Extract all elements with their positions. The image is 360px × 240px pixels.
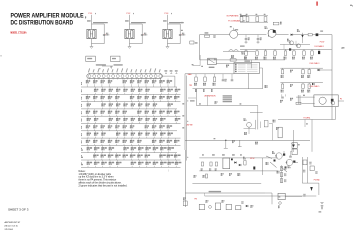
svg-text:P4-3 CHNL 3: P4-3 CHNL 3	[310, 63, 320, 65]
svg-text:P1 CONN AUX: P1 CONN AUX	[228, 20, 241, 23]
svg-text:2 Ignore indicates that the p: 2 Ignore indicates that the part is not …	[79, 185, 128, 188]
svg-text:ASPWRDIST.S7: ASPWRDIST.S7	[5, 221, 22, 224]
svg-text:P6 GND: P6 GND	[314, 179, 321, 181]
svg-text:TP5: TP5	[194, 199, 197, 201]
svg-text:+: +	[143, 33, 144, 35]
svg-text:+: +	[105, 33, 106, 35]
svg-text:P5: P5	[340, 99, 342, 101]
svg-text:DC DISTRIBUTION BOARD: DC DISTRIBUTION BOARD	[11, 20, 74, 27]
svg-text:5V PWR REG: 5V PWR REG	[227, 16, 239, 18]
svg-text:SHEET 3 OF 3: SHEET 3 OF 3	[8, 208, 29, 212]
svg-text:TP3: TP3	[189, 85, 192, 87]
svg-text:P1-1: P1-1	[89, 13, 93, 15]
svg-text:MODEL CT2118A: MODEL CT2118A	[11, 31, 27, 34]
svg-text:P1-3: P1-3	[165, 13, 169, 15]
svg-text:POWER AMPLIFIER MODULE ,: POWER AMPLIFIER MODULE ,	[11, 13, 87, 20]
svg-text:2/1/2004: 2/1/2004	[5, 229, 14, 231]
svg-text:28V SW: 28V SW	[187, 124, 193, 126]
svg-text:P4 CHNL: P4 CHNL	[304, 118, 311, 120]
svg-text:(Sheet 3 of 3): (Sheet 3 of 3)	[5, 225, 18, 228]
svg-text:P4-5 CHNL 5: P4-5 CHNL 5	[310, 86, 320, 88]
svg-text:P1-2: P1-2	[127, 13, 131, 15]
svg-text:+: +	[181, 33, 182, 35]
